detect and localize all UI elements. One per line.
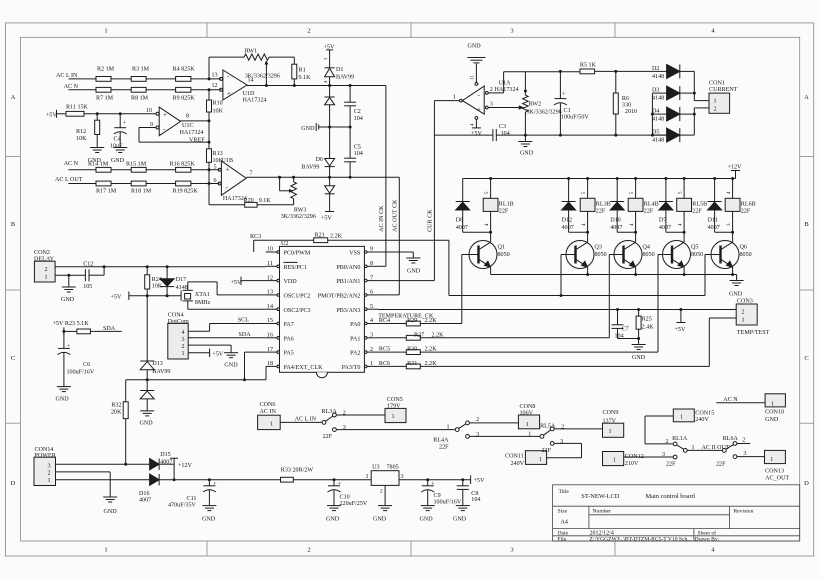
- svg-text:R15 1M: R15 1M: [126, 162, 147, 168]
- wire U1D output: [247, 85, 386, 87]
- svg-text:1: 1: [680, 415, 683, 421]
- svg-text:GND: GND: [632, 355, 646, 361]
- svg-text:RL4A: RL4A: [433, 438, 449, 444]
- svg-text:2010: 2010: [625, 109, 637, 115]
- resistor R11: [66, 111, 84, 116]
- capacitor C7: [617, 310, 619, 325]
- svg-text:2.2K: 2.2K: [425, 347, 438, 353]
- svg-text:PB3/AN3: PB3/AN3: [336, 308, 360, 314]
- wire pin6 AC_OUT_CK: [378, 294, 399, 296]
- svg-text:D15: D15: [160, 452, 171, 458]
- resistor R33: [281, 477, 294, 482]
- wire RL6A c2 stub: [737, 443, 750, 445]
- ground pin9: [406, 257, 420, 259]
- wire crystal to OSC1: [187, 282, 189, 290]
- svg-text:5: 5: [214, 164, 217, 170]
- svg-text:DotCom: DotCom: [168, 319, 189, 325]
- svg-text:8: 8: [186, 114, 189, 120]
- svg-text:22F: 22F: [542, 448, 552, 454]
- svg-text:GND: GND: [224, 362, 238, 368]
- svg-text:Q6: Q6: [740, 244, 747, 250]
- svg-text:C8: C8: [471, 491, 478, 497]
- svg-text:3: 3: [181, 337, 184, 343]
- capacitor C1: [559, 71, 561, 98]
- resistor R31 row: [378, 365, 406, 367]
- diode D17: [166, 267, 168, 279]
- wire AC_L_OUT row: [68, 183, 96, 185]
- svg-text:Q5: Q5: [691, 244, 698, 250]
- svg-text:AC L OUT: AC L OUT: [55, 177, 83, 183]
- transistor Q6: [711, 241, 739, 269]
- svg-text:3: 3: [560, 439, 563, 445]
- svg-text:PA0: PA0: [350, 322, 360, 328]
- ground under R12: [90, 147, 104, 149]
- svg-text:RW3: RW3: [294, 207, 307, 213]
- svg-text:U3: U3: [372, 465, 379, 471]
- svg-text:C: C: [804, 355, 808, 362]
- svg-text:10K: 10K: [213, 109, 224, 115]
- relay coil RL5B: [683, 179, 685, 199]
- wire pin3: [488, 107, 519, 109]
- resistor R23: [77, 329, 91, 334]
- +12V tap: [173, 458, 175, 464]
- wire AC_L_IN to RL3A: [280, 421, 322, 423]
- svg-text:220uF/25V: 220uF/25V: [340, 501, 368, 507]
- svg-text:RL1B: RL1B: [499, 202, 514, 208]
- svg-text:2: 2: [370, 347, 373, 353]
- svg-text:D12: D12: [562, 218, 573, 224]
- svg-text:+5V: +5V: [212, 351, 223, 357]
- svg-text:ST-NEW-LCD: ST-NEW-LCD: [581, 493, 619, 500]
- svg-text:4148: 4148: [652, 96, 664, 102]
- svg-text:13: 13: [267, 290, 273, 296]
- wire +5V R23 row: [63, 327, 65, 335]
- wire CON15 to RL1A c2: [645, 415, 673, 417]
- svg-text:Drawn By:: Drawn By:: [695, 537, 720, 543]
- svg-text:1: 1: [770, 457, 773, 463]
- svg-text:2: 2: [490, 87, 493, 93]
- svg-text:240V: 240V: [511, 461, 525, 467]
- svg-text:PB0/AN0: PB0/AN0: [336, 265, 360, 271]
- svg-text:8MHz: 8MHz: [195, 300, 211, 306]
- svg-text:R11 15K: R11 15K: [66, 105, 89, 111]
- ground emitter rail: [736, 275, 738, 281]
- svg-text:4007: 4007: [160, 459, 172, 465]
- connector CON6: [258, 415, 281, 429]
- svg-text:CON15: CON15: [695, 411, 714, 417]
- transistor Q5: [663, 241, 691, 269]
- wire PMOT net: [449, 295, 705, 297]
- svg-text:RL3A: RL3A: [322, 409, 338, 415]
- wire CON4 pin1 +5V: [188, 352, 209, 354]
- svg-text:R6: R6: [622, 96, 629, 102]
- op-amp U1C: [159, 107, 180, 136]
- svg-text:D3: D3: [652, 88, 659, 94]
- svg-text:Q1: Q1: [498, 244, 505, 250]
- svg-text:File: File: [558, 537, 567, 543]
- svg-text:+: +: [67, 342, 71, 349]
- svg-text:3: 3: [743, 451, 746, 457]
- svg-text:CON1: CON1: [709, 80, 725, 86]
- wire U1A output to CUR_CK: [434, 100, 459, 102]
- wire node D10-RL4B: [617, 231, 635, 233]
- ground D13b: [140, 410, 154, 412]
- svg-text:2: 2: [742, 310, 745, 316]
- svg-text:R7 1M: R7 1M: [96, 95, 114, 101]
- svg-text:+5V: +5V: [324, 45, 335, 51]
- svg-text:RL5A: RL5A: [540, 423, 556, 429]
- svg-text:22F: 22F: [596, 208, 606, 214]
- svg-text:PB1/AN1: PB1/AN1: [336, 279, 360, 285]
- transistor Q1: [469, 241, 497, 269]
- capacitor C10: [333, 480, 335, 486]
- svg-text:17: 17: [267, 347, 273, 353]
- svg-text:C7: C7: [622, 326, 629, 332]
- ground C11: [202, 505, 216, 507]
- svg-text:AC IN CK: AC IN CK: [379, 205, 385, 232]
- svg-text:Revision: Revision: [734, 508, 754, 514]
- wire AC_N to CON10: [716, 402, 765, 404]
- svg-text:D1: D1: [336, 67, 343, 73]
- wire pin2: [488, 92, 503, 94]
- svg-text:Q4: Q4: [643, 244, 650, 250]
- svg-text:1: 1: [270, 421, 273, 427]
- svg-text:AC N: AC N: [723, 397, 738, 403]
- svg-text:2: 2: [714, 106, 717, 112]
- wire +5V to R11 to U1C pin10: [56, 110, 58, 118]
- svg-text:+: +: [562, 91, 566, 98]
- svg-text:D: D: [11, 480, 16, 487]
- resistor R4: [176, 77, 191, 82]
- svg-text:AC_OUT: AC_OUT: [765, 476, 789, 482]
- svg-text:1: 1: [528, 432, 531, 438]
- svg-text:C10: C10: [340, 494, 350, 500]
- potentiometer RW3: [293, 177, 295, 182]
- connector CON3: [736, 304, 757, 325]
- svg-text:AC N: AC N: [64, 161, 79, 167]
- resistor R19: [176, 181, 191, 186]
- connector CON11: [525, 451, 546, 465]
- svg-text:GND: GND: [729, 292, 743, 298]
- svg-text:+5V: +5V: [471, 131, 482, 137]
- svg-text:12: 12: [212, 83, 218, 89]
- ground R25: [638, 339, 640, 345]
- regulator U3: [371, 471, 399, 486]
- svg-text:CUR CK: CUR CK: [428, 209, 434, 232]
- wire VREF feedback: [139, 141, 209, 143]
- svg-text:1: 1: [613, 457, 616, 463]
- relay coil RL4B: [635, 179, 637, 199]
- svg-text:10: 10: [267, 247, 273, 253]
- svg-text:+12V: +12V: [178, 463, 193, 469]
- resistor R5: [580, 69, 595, 74]
- svg-text:VSS: VSS: [349, 251, 361, 257]
- svg-text:R19 825K: R19 825K: [173, 189, 199, 195]
- svg-text:22F: 22F: [716, 461, 726, 467]
- wire collector Q5: [683, 232, 685, 242]
- svg-text:D16: D16: [139, 491, 150, 497]
- svg-text:R32: R32: [111, 402, 121, 408]
- svg-text:4007: 4007: [708, 225, 720, 231]
- svg-text:22F: 22F: [323, 434, 333, 440]
- wire emitter Q5: [683, 267, 685, 274]
- svg-text:AC IN: AC IN: [260, 409, 277, 415]
- diode D13: [146, 296, 148, 361]
- +5V at VDD: [240, 277, 242, 285]
- svg-text:+: +: [227, 90, 231, 98]
- wire crystal to OSC2: [187, 301, 189, 309]
- svg-text:R1: R1: [299, 68, 306, 74]
- svg-text:22F: 22F: [439, 445, 449, 451]
- svg-text:PA2: PA2: [350, 351, 360, 357]
- svg-text:6: 6: [214, 178, 217, 184]
- svg-text:R23 5.1K: R23 5.1K: [65, 321, 89, 327]
- svg-text:8050: 8050: [643, 252, 655, 258]
- capacitor C5: [344, 157, 356, 159]
- ground CON14: [103, 496, 117, 498]
- svg-text:R8 1M: R8 1M: [131, 95, 149, 101]
- svg-text:210V: 210V: [625, 461, 639, 467]
- svg-text:PA1: PA1: [350, 336, 360, 342]
- svg-text:Title: Title: [559, 489, 570, 495]
- svg-text:GND: GND: [140, 421, 154, 427]
- svg-text:9: 9: [150, 122, 153, 128]
- svg-text:R14 1M: R14 1M: [88, 162, 109, 168]
- +5V tap pin5 net: [680, 310, 682, 323]
- wire pin18: [265, 366, 267, 379]
- svg-text:4148: 4148: [652, 74, 664, 80]
- svg-text:U2: U2: [281, 241, 288, 247]
- wire AC_N row: [68, 89, 96, 91]
- svg-text:106V: 106V: [520, 411, 534, 417]
- svg-text:C1: C1: [564, 108, 571, 114]
- ground C9: [421, 505, 435, 507]
- connector CON2: [34, 261, 55, 282]
- wire node D7-RL5B: [666, 231, 684, 233]
- wire base Q3: [561, 254, 576, 256]
- svg-text:2.2K: 2.2K: [425, 318, 438, 324]
- wire collector Q3: [587, 232, 589, 242]
- wire pin9 VSS to ground: [378, 251, 413, 253]
- wire C7-R25 bottom: [618, 338, 639, 340]
- wire emitter Q4: [635, 267, 637, 274]
- svg-text:14: 14: [267, 304, 273, 310]
- svg-text:2: 2: [307, 547, 310, 554]
- svg-text:22F: 22F: [692, 208, 702, 214]
- svg-text:GND: GND: [111, 158, 125, 164]
- svg-text:GND: GND: [765, 417, 779, 423]
- svg-text:R16 825K: R16 825K: [170, 162, 196, 168]
- svg-text:3: 3: [343, 425, 346, 431]
- svg-text:D: D: [804, 480, 809, 487]
- svg-text:R25: R25: [642, 317, 652, 323]
- svg-text:3: 3: [490, 102, 493, 108]
- svg-text:RC5: RC5: [379, 347, 390, 353]
- wire AC_II_OUT: [687, 449, 722, 451]
- svg-text:BAV99: BAV99: [336, 75, 354, 81]
- svg-text:RL4B: RL4B: [644, 202, 659, 208]
- svg-text:RW1: RW1: [245, 49, 258, 55]
- svg-text:+5V: +5V: [53, 321, 64, 327]
- svg-text:XTA1: XTA1: [195, 292, 210, 298]
- svg-text:CON2: CON2: [34, 250, 50, 256]
- ground C10: [327, 505, 341, 507]
- svg-text:BAV99: BAV99: [152, 369, 170, 375]
- svg-text:D7: D7: [659, 218, 666, 224]
- svg-text:1: 1: [45, 275, 48, 281]
- wire RL3A c2 to CON5: [336, 414, 385, 416]
- crystal XTA1: [180, 291, 182, 301]
- resistor R1: [293, 57, 295, 64]
- svg-text:6: 6: [370, 290, 373, 296]
- resistor R3: [131, 77, 146, 82]
- wire emitter Q6: [732, 267, 734, 274]
- wire pin4 +5V: [475, 120, 477, 128]
- svg-text:PA6: PA6: [284, 336, 294, 342]
- svg-text:SDA: SDA: [239, 332, 252, 338]
- svg-text:C11: C11: [187, 496, 197, 502]
- svg-text:11: 11: [267, 261, 273, 267]
- wire RL4A c2 to CON8: [469, 422, 518, 424]
- svg-text:3: 3: [476, 432, 479, 438]
- svg-text:CON13: CON13: [765, 469, 784, 475]
- svg-text:AC OUT CK: AC OUT CK: [393, 199, 399, 232]
- svg-text:1: 1: [714, 99, 717, 105]
- svg-text:RC4: RC4: [379, 318, 390, 324]
- wire RL6A c3 to CON13: [737, 456, 765, 458]
- wire SCL: [188, 330, 209, 332]
- wire CON14 pin3 row: [56, 463, 150, 465]
- svg-text:2: 2: [561, 424, 564, 430]
- svg-text:C12: C12: [83, 262, 93, 268]
- svg-text:C2: C2: [354, 109, 361, 115]
- svg-text:1: 1: [47, 478, 50, 484]
- svg-text:CON12: CON12: [625, 454, 644, 460]
- svg-text:2.2K: 2.2K: [432, 332, 445, 338]
- svg-text:4007: 4007: [659, 225, 671, 231]
- svg-text:GND: GND: [520, 151, 534, 157]
- svg-text:1: 1: [181, 351, 184, 357]
- +12V supply: [731, 170, 740, 172]
- svg-text:RC6: RC6: [379, 361, 390, 367]
- potentiometer RW1: [244, 54, 269, 60]
- svg-text:22F: 22F: [644, 208, 654, 214]
- svg-text:GND: GND: [407, 269, 421, 275]
- resistor R21: [314, 238, 328, 243]
- svg-text:22F: 22F: [666, 461, 676, 467]
- wire node D12-RL3B: [569, 231, 588, 233]
- svg-text:GND: GND: [104, 509, 118, 515]
- svg-text:4148: 4148: [652, 117, 664, 123]
- svg-text:VREF: VREF: [189, 138, 205, 144]
- wire base Q4: [609, 254, 623, 256]
- svg-text:PA7: PA7: [284, 322, 294, 328]
- wire U1B output: [246, 176, 399, 178]
- svg-text:3: 3: [662, 452, 665, 458]
- svg-text:2: 2: [665, 439, 668, 445]
- svg-text:Sheet of: Sheet of: [698, 529, 717, 536]
- ground C8: [456, 505, 470, 507]
- connector CON8: [518, 415, 539, 429]
- connector CON4: [168, 323, 188, 359]
- svg-text:1: 1: [104, 28, 107, 35]
- wire base Q1: [462, 254, 479, 256]
- wire RL3A c3 chain: [336, 429, 455, 431]
- capacitor C12 series: [55, 274, 85, 276]
- svg-text:8: 8: [370, 261, 373, 267]
- svg-text:2: 2: [476, 417, 479, 423]
- svg-text:4148: 4148: [176, 285, 188, 291]
- connector CON9: [603, 423, 624, 437]
- svg-text:R17 1M: R17 1M: [96, 189, 117, 195]
- svg-text:7805: 7805: [387, 465, 399, 471]
- svg-text:10uF: 10uF: [110, 144, 123, 150]
- capacitor C11: [208, 480, 210, 486]
- svg-text:R9 825K: R9 825K: [173, 95, 196, 101]
- svg-text:CON5: CON5: [387, 397, 403, 403]
- svg-text:1: 1: [392, 414, 395, 420]
- svg-text:+: +: [226, 165, 230, 173]
- svg-text:15: 15: [267, 318, 273, 324]
- svg-text:1: 1: [446, 424, 449, 430]
- svg-text:C9: C9: [434, 493, 441, 499]
- connector CON13: [765, 450, 786, 463]
- resistor R30 row: [378, 351, 406, 353]
- svg-text:R30: R30: [407, 347, 417, 353]
- svg-text:8050: 8050: [740, 252, 752, 258]
- capacitor C6: [63, 331, 65, 348]
- svg-text:GND: GND: [202, 516, 216, 522]
- diode D16: [150, 474, 160, 485]
- wire CON3 pin1 to RC6 row: [709, 317, 736, 319]
- svg-text:10: 10: [146, 108, 152, 114]
- connector CON14: [34, 457, 56, 485]
- svg-text:U1A: U1A: [499, 80, 511, 86]
- svg-text:U1B: U1B: [222, 158, 234, 164]
- wire +5V bias row: [128, 292, 130, 301]
- svg-text:D8: D8: [456, 218, 463, 224]
- svg-text:A4: A4: [561, 519, 568, 525]
- svg-text:+: +: [213, 480, 217, 487]
- svg-text:104: 104: [615, 333, 624, 339]
- svg-text:CON3: CON3: [737, 299, 753, 305]
- resistor R32: [125, 380, 127, 402]
- svg-text:GND: GND: [373, 516, 387, 522]
- svg-text:RL1A: RL1A: [672, 436, 688, 442]
- wire CON12 to RL1A c3: [624, 456, 674, 458]
- svg-text:VDD: VDD: [284, 279, 298, 285]
- wire U3 out: [399, 479, 471, 481]
- wire diode ladder left: [651, 93, 653, 135]
- svg-text:4007: 4007: [139, 498, 151, 504]
- svg-text:5: 5: [370, 304, 373, 310]
- svg-text:1: 1: [370, 361, 373, 367]
- svg-text:R13: R13: [213, 151, 223, 157]
- svg-text:R31: R31: [407, 361, 417, 367]
- svg-text:7: 7: [250, 171, 253, 177]
- svg-text:4: 4: [181, 330, 184, 336]
- wire AC_OUT_CK vertical: [398, 177, 400, 295]
- svg-text:D17: D17: [176, 277, 187, 283]
- svg-text:+12V: +12V: [728, 165, 743, 171]
- svg-text:1: 1: [365, 474, 368, 480]
- diode D5: [667, 128, 680, 142]
- svg-text:Size: Size: [558, 508, 568, 514]
- svg-text:1: 1: [742, 317, 745, 323]
- wire CON14 pin2 to ground: [56, 471, 111, 473]
- svg-text:CON6: CON6: [260, 402, 276, 408]
- resistor R20: [245, 202, 257, 207]
